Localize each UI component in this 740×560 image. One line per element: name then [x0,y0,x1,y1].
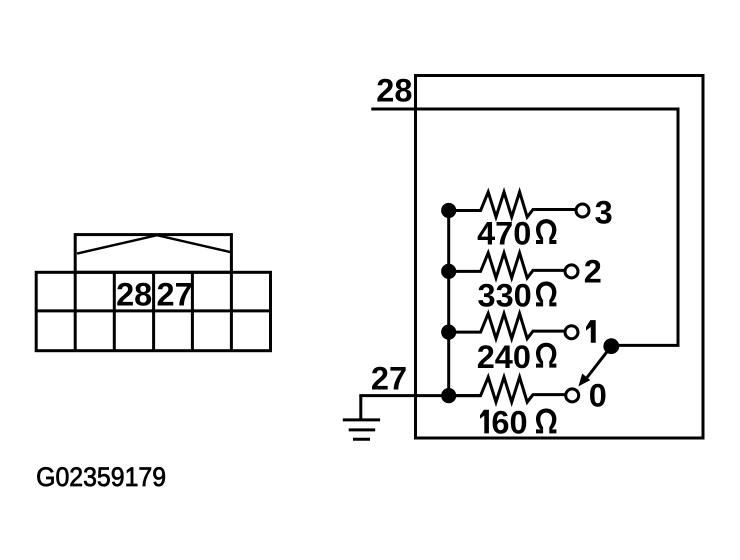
node junction row 2 [441,264,456,279]
value label 330 ohm unit [536,282,556,307]
svg-text:G02359179: G02359179 [36,462,166,492]
value label 160 ohm digit 1 [480,410,489,434]
svg-text:27: 27 [371,360,407,396]
svg-text:60: 60 [491,405,527,441]
bus wire (vertical bus joining resistors) [447,211,450,396]
wire 27 (from ground to resistor bus) [359,394,481,397]
pin number 1 [586,320,596,343]
node junction row 1 [441,325,456,340]
connector C1 latch lines [77,235,231,253]
switch arm wiper [587,346,611,377]
value label 160 ohm unit [536,409,556,434]
svg-text:240: 240 [477,339,531,375]
value label 470 ohm unit [536,219,556,244]
resistor R2 330 ohm [449,253,565,278]
svg-text:3: 3 [595,194,613,230]
value label 240 ohm unit [536,343,556,368]
connector C1 pin grid (6x2) [36,272,270,350]
resistor R1 470 ohm [449,192,576,217]
ground G1 [343,396,380,440]
svg-text:470: 470 [477,215,531,251]
svg-text:2: 2 [584,254,602,290]
svg-text:27: 27 [157,277,193,313]
wire 28 (into box, down right side to switch pivot) [371,109,678,345]
node junction row 3 [441,203,456,218]
resistor R3 240 ohm [449,314,565,339]
connector C1 top housing [75,235,231,273]
terminal 2 [565,265,578,278]
switch arm arrowhead [578,374,590,387]
resistor R4 160 ohm [449,377,566,402]
terminal 3 [576,204,589,217]
svg-text:0: 0 [589,377,607,413]
blower resistor module box [416,76,704,439]
svg-text:28: 28 [116,277,152,313]
terminal 0 [566,389,579,402]
svg-text:28: 28 [376,73,412,109]
svg-text:330: 330 [478,278,532,314]
node junction row 0 [441,388,456,403]
switch pivot node [603,338,619,354]
terminal 1 [565,326,578,339]
